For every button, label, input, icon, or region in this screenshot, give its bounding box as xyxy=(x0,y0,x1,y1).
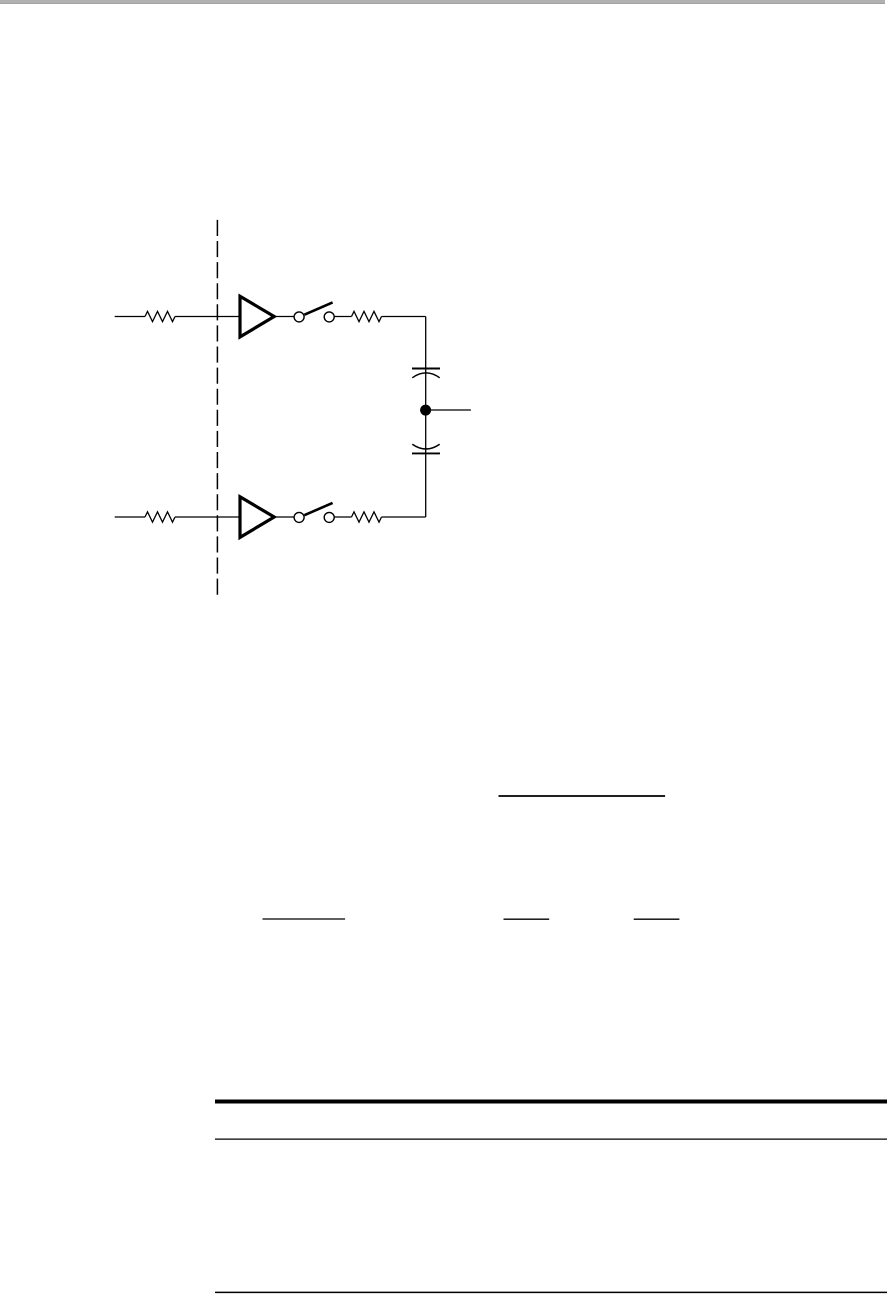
wire: bottom-left input lead xyxy=(115,516,145,518)
resistor R3 (bottom-left) xyxy=(145,512,175,522)
capacitor C1 curved plate xyxy=(412,373,439,378)
wire: R2 to top-right corner xyxy=(382,316,426,318)
switch S2 right contact circle xyxy=(324,512,334,522)
buffer amplifier U1 (top) xyxy=(240,296,274,337)
dashed device boundary line xyxy=(216,220,218,595)
equation fraction bar (left small) xyxy=(263,918,346,920)
capacitor C2 curved plate xyxy=(412,444,439,449)
wire: switch to R2 xyxy=(334,316,351,318)
switch S1 arm xyxy=(304,302,332,314)
switch S1 right contact circle xyxy=(324,312,334,322)
wire: R4 to bottom-right corner xyxy=(382,516,426,518)
table bottom rule xyxy=(215,1291,887,1293)
equation fraction bar (middle small) xyxy=(504,918,550,920)
equation fraction bar (right small) xyxy=(634,918,680,920)
table top rule (thick) xyxy=(215,1100,887,1104)
equation fraction bar (large) xyxy=(499,795,666,797)
switch S2 arm xyxy=(304,503,332,515)
switch S2 left contact circle xyxy=(294,512,304,522)
buffer amplifier U2 (bottom) xyxy=(240,497,274,538)
resistor R2 (top-right) xyxy=(352,311,382,321)
table header rule (thin) xyxy=(215,1138,887,1140)
wire: U1 output to switch xyxy=(276,316,295,318)
wire: R3 to buffer input xyxy=(175,516,240,518)
wire: switch to R4 xyxy=(334,516,351,518)
wire: U2 output to switch xyxy=(276,516,295,518)
wire: node stub to the right xyxy=(426,409,471,411)
switch S1 left contact circle xyxy=(294,312,304,322)
wire: top-left input lead xyxy=(115,316,145,318)
capacitor C2 flat plate xyxy=(412,452,440,454)
node XTAL junction dot xyxy=(420,405,431,416)
header bar xyxy=(0,0,885,4)
capacitor C1 flat plate xyxy=(412,368,440,370)
wire: right vertical rail xyxy=(425,317,427,518)
resistor R1 (top-left) xyxy=(145,311,175,321)
resistor R4 (bottom-right) xyxy=(352,512,382,522)
wire: R1 to buffer input xyxy=(175,316,240,318)
